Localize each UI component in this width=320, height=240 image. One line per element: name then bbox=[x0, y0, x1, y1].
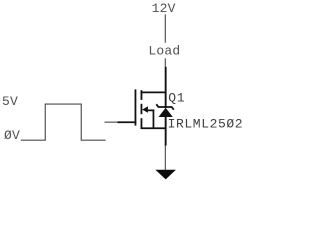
gate plate bbox=[134, 89, 136, 125]
gate lead bbox=[118, 121, 137, 123]
ground bbox=[155, 170, 176, 180]
channel segment drain bbox=[140, 90, 142, 100]
drain vertical bbox=[165, 67, 167, 108]
wire 12V to Load bbox=[164, 14, 166, 42]
body arrow head bbox=[142, 106, 148, 112]
input waveform 0V-5V pulse bbox=[21, 104, 106, 140]
body diode triangle bbox=[159, 108, 173, 117]
channel segment body bbox=[140, 104, 142, 114]
wire Load to drain bbox=[164, 58, 166, 67]
gate wire bbox=[105, 121, 119, 123]
source vertical bbox=[165, 116, 167, 146]
source stub bbox=[141, 127, 167, 129]
svg-text:5V: 5V bbox=[2, 94, 18, 109]
svg-text:Q1: Q1 bbox=[168, 90, 185, 105]
body diode cathode bar (zener style) bbox=[156, 104, 174, 110]
svg-text:IRLML25Ø2: IRLML25Ø2 bbox=[168, 117, 244, 132]
drain stub bbox=[141, 91, 167, 93]
body drop to source bbox=[152, 110, 154, 129]
svg-text:12V: 12V bbox=[152, 1, 176, 16]
svg-text:ØV: ØV bbox=[4, 128, 20, 143]
transistor Q1 IRLML2502 N-channel MOSFET bbox=[118, 67, 167, 146]
channel segment source bbox=[140, 118, 142, 128]
body contact line bbox=[147, 109, 154, 111]
wire source to ground bbox=[164, 146, 166, 171]
svg-text:Load: Load bbox=[148, 44, 180, 59]
